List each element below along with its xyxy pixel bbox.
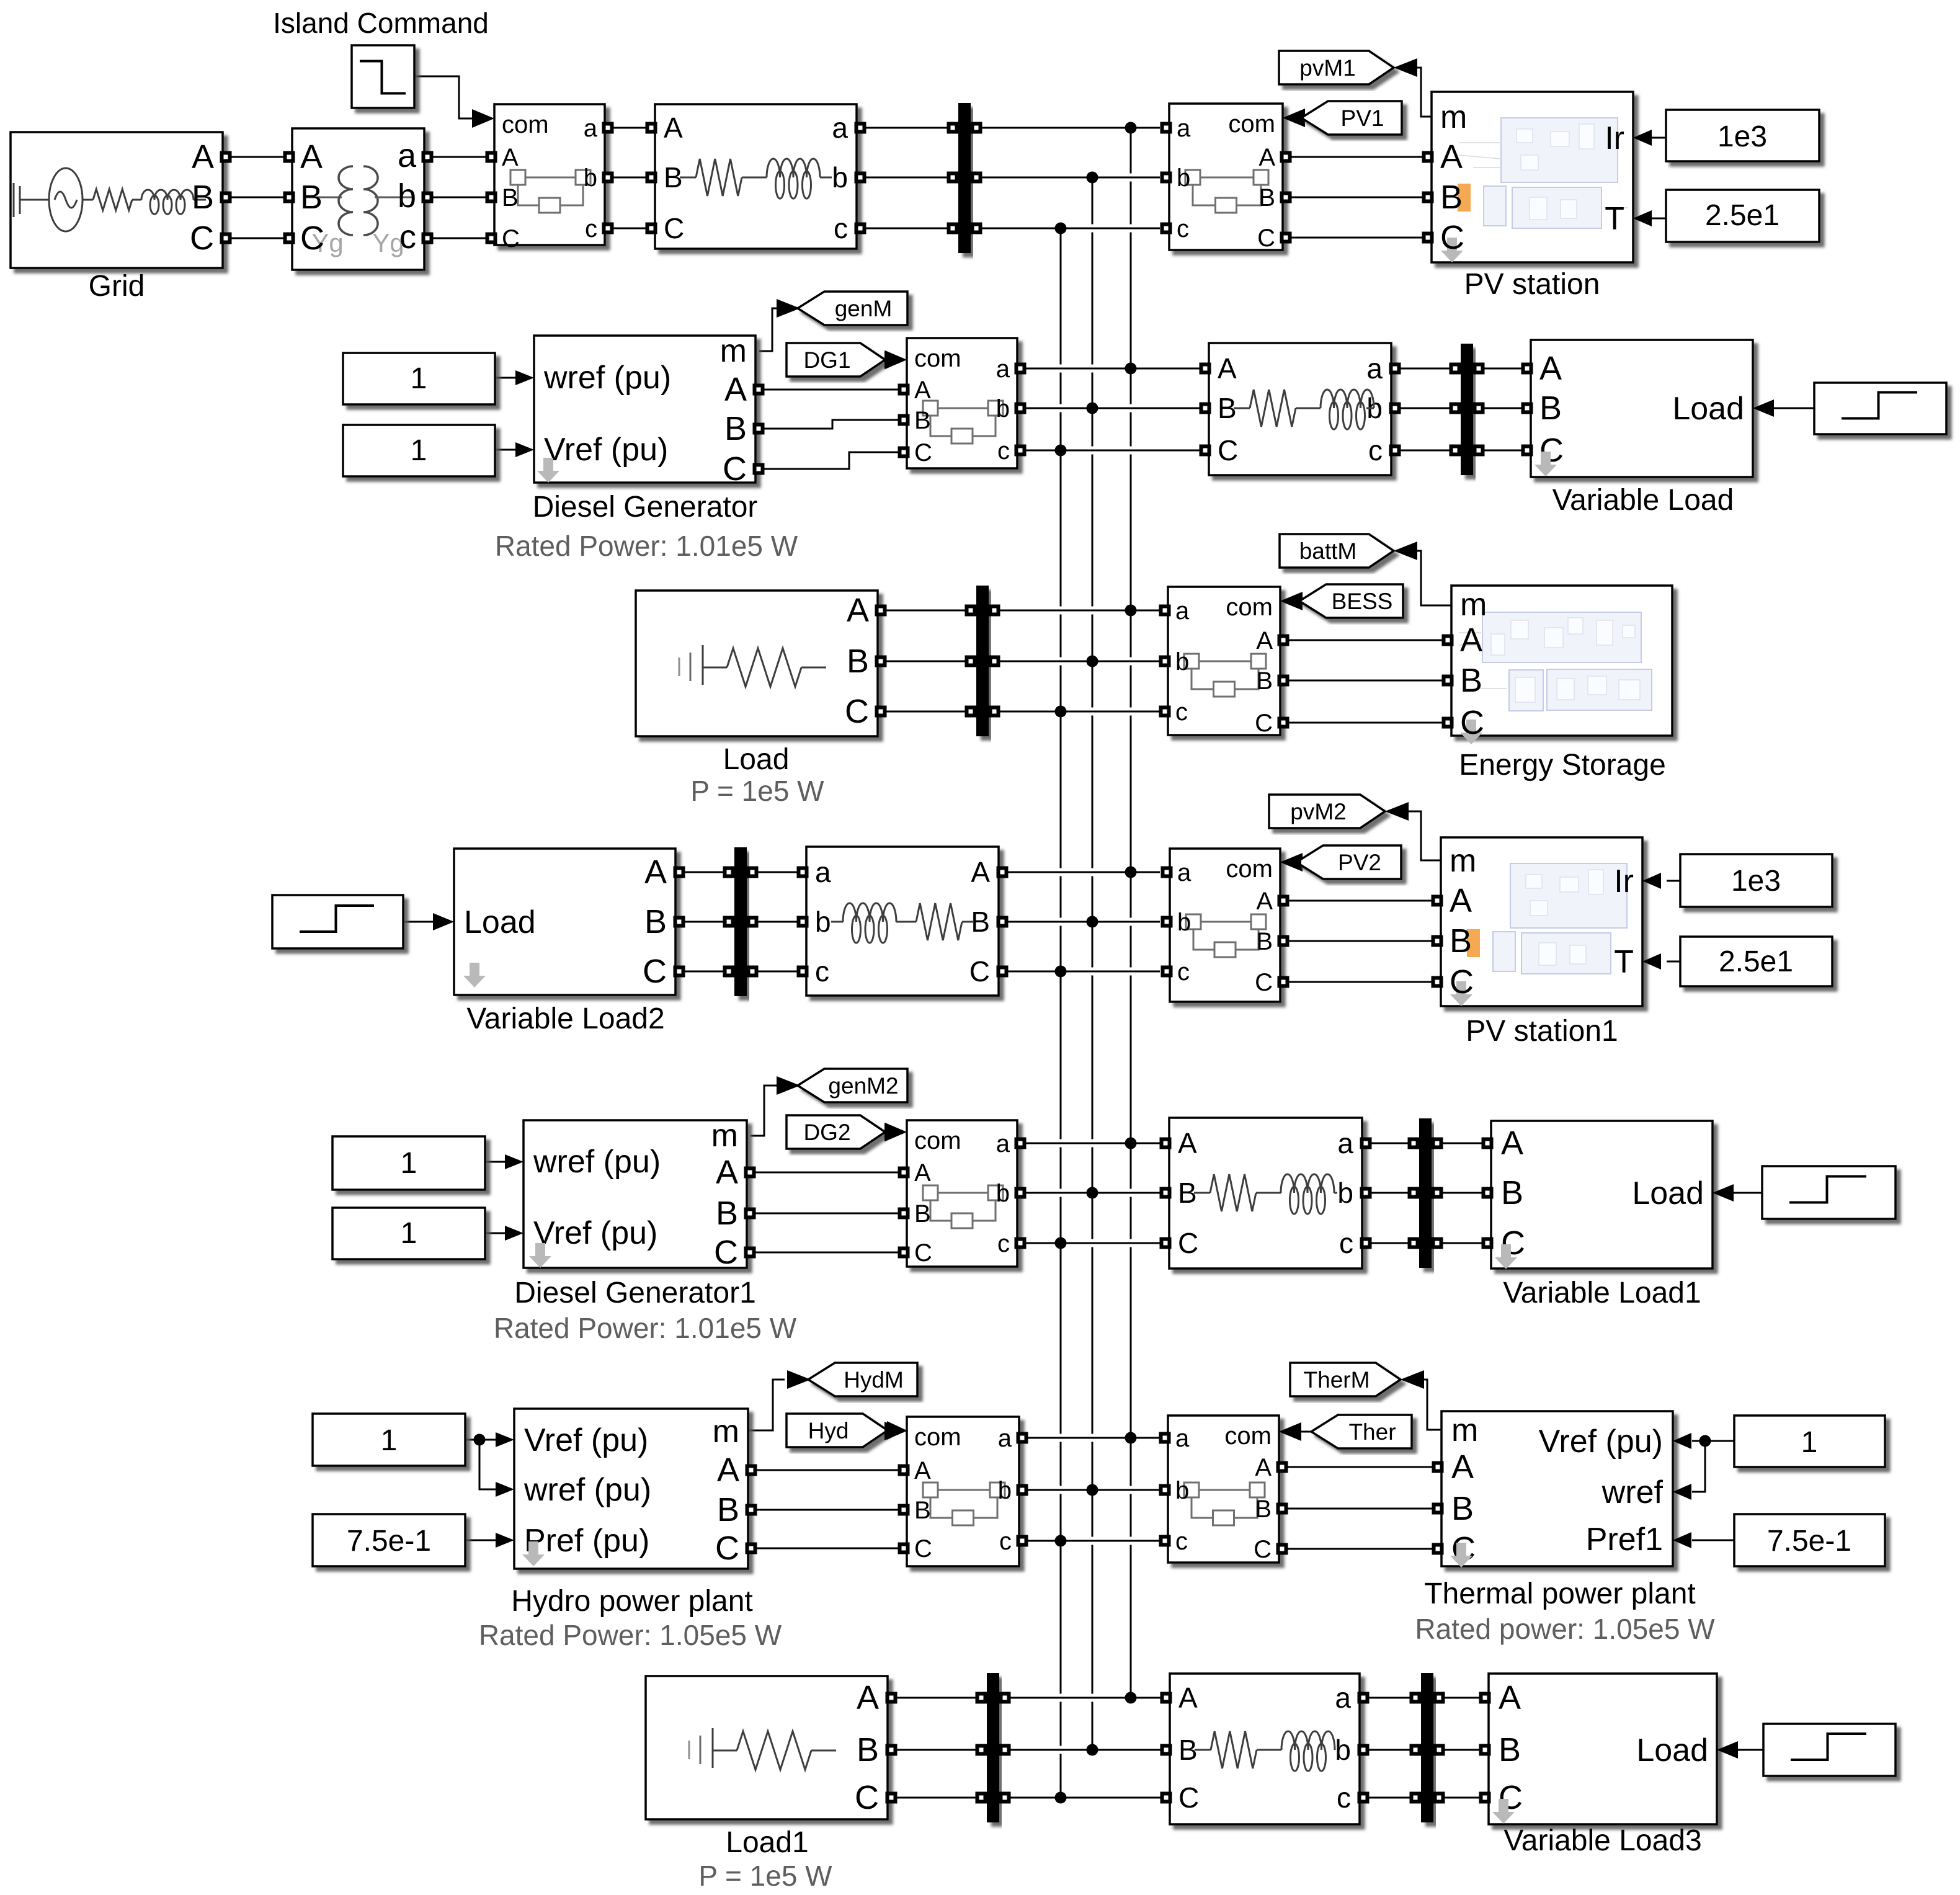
- svg-text:B: B: [857, 1731, 879, 1768]
- svg-text:A: A: [1256, 627, 1273, 654]
- svg-text:A: A: [1460, 622, 1482, 659]
- junction row1 b / v2: [1087, 172, 1098, 184]
- svg-text:b: b: [996, 1180, 1010, 1207]
- constant 2.5e1 row4: [1680, 937, 1832, 986]
- junction row6 b / v2: [1087, 1484, 1098, 1496]
- svg-text:Load: Load: [723, 743, 790, 776]
- svg-text:A: A: [1258, 144, 1275, 171]
- svg-text:genM: genM: [835, 296, 893, 321]
- block Variable Load3: [1489, 1674, 1717, 1824]
- wire RLC1.a to Bus1: [864, 127, 953, 129]
- junction row5 a / v3: [1125, 1138, 1137, 1149]
- svg-text:B: B: [192, 179, 214, 216]
- svg-text:2.5e1: 2.5e1: [1719, 945, 1793, 978]
- svg-text:PV station1: PV station1: [1466, 1015, 1618, 1048]
- svg-text:B: B: [1256, 667, 1273, 695]
- junction row1 a / v3: [1125, 122, 1137, 134]
- wire constant 2.5e1 to PV station.T: [1650, 218, 1666, 220]
- svg-text:7.5e-1: 7.5e-1: [1767, 1525, 1851, 1558]
- wire Hydro.A to BreakerH.A: [755, 1469, 901, 1471]
- svg-text:Load: Load: [464, 904, 536, 940]
- svg-text:PV2: PV2: [1338, 850, 1381, 875]
- wire constant 2.5e1 row4 to PV station1.T: [1667, 961, 1680, 963]
- svg-text:B: B: [1255, 1496, 1272, 1523]
- wire Bus1 to Breaker2.a: [976, 124, 1160, 132]
- svg-text:C: C: [300, 220, 324, 257]
- svg-text:A: A: [717, 1451, 739, 1489]
- svg-text:wref (pu): wref (pu): [533, 1144, 661, 1180]
- svg-text:A: A: [914, 1159, 931, 1187]
- Hydro badge: [522, 1541, 545, 1566]
- svg-text:wref (pu): wref (pu): [543, 360, 671, 396]
- svg-text:c: c: [815, 955, 829, 988]
- wire step4 to Variable Load3.Load: [1738, 1749, 1763, 1751]
- svg-text:Load: Load: [1672, 391, 1744, 427]
- svg-text:Variable Load3: Variable Load3: [1503, 1824, 1701, 1857]
- svg-text:c: c: [834, 212, 848, 244]
- junction row2 c / v1: [1055, 445, 1067, 457]
- wire Transformer.b to Breaker1.B: [430, 197, 489, 198]
- wire BreakerH.a to Breaker7.a: [1020, 1434, 1162, 1442]
- svg-text:B: B: [644, 903, 667, 940]
- svg-text:Thermal power plant: Thermal power plant: [1424, 1577, 1696, 1610]
- junction row7 b / v2: [1087, 1744, 1098, 1756]
- wire Breaker3.b to RLC2.B: [1020, 404, 1202, 412]
- wire TherM tag to Thermal.m: [1423, 1380, 1441, 1430]
- svg-text:b: b: [832, 161, 848, 194]
- from tag DG1: [786, 343, 885, 377]
- svg-text:A: A: [1255, 1454, 1272, 1481]
- wire Breaker3.a to RLC2.A: [1020, 365, 1202, 373]
- svg-text:A: A: [1451, 1448, 1474, 1486]
- wire Diesel Generator1.A to Breaker6.A: [754, 1172, 901, 1174]
- from tag Hyd: [786, 1414, 888, 1447]
- svg-text:C: C: [845, 693, 869, 730]
- svg-text:C: C: [715, 1530, 739, 1567]
- junction row7 c / v1: [1055, 1792, 1067, 1804]
- constant 7.5e-1 row6: [313, 1514, 465, 1566]
- wire Breaker4.A to Energy Storage.A: [1287, 640, 1445, 641]
- junction row3 a / v3: [1125, 605, 1137, 617]
- svg-text:DG1: DG1: [803, 347, 850, 373]
- svg-text:Vref (pu): Vref (pu): [524, 1422, 648, 1458]
- wire Breaker7.A to Thermal.A: [1286, 1466, 1435, 1468]
- block Variable Load: [1531, 340, 1753, 477]
- block RLC5 three-phase series branch: [1170, 1674, 1360, 1824]
- bus bar Bus1: [958, 103, 971, 253]
- junction constant1/wref branch: [474, 1434, 486, 1446]
- svg-text:com: com: [1228, 110, 1275, 138]
- breaker Breaker7 (thermal breaker): [1168, 1416, 1279, 1563]
- svg-text:7.5e-1: 7.5e-1: [347, 1525, 431, 1558]
- svg-text:HydM: HydM: [844, 1367, 904, 1393]
- wire constant1 row6 to Hydro.Vref and wref: [465, 1439, 496, 1441]
- svg-text:B: B: [847, 643, 869, 680]
- wire step to Variable Load.Load: [1774, 408, 1814, 409]
- wire Breaker2.A to PV station.A: [1290, 156, 1425, 158]
- wire Breaker3.c to RLC2.C: [1020, 447, 1202, 455]
- junction row5 b / v2: [1087, 1187, 1098, 1199]
- goto tag TherM: [1290, 1363, 1401, 1396]
- svg-text:PV station: PV station: [1464, 268, 1600, 301]
- svg-text:a: a: [1175, 1425, 1190, 1452]
- step source Island Command: [352, 45, 414, 108]
- wire Bus5 to Variable Load1.A: [1437, 1143, 1485, 1144]
- svg-text:b: b: [1177, 164, 1190, 192]
- wire Breaker2.C to PV station.C: [1290, 237, 1425, 239]
- svg-text:c: c: [997, 437, 1010, 465]
- constant 7.5e-1 thermal: [1734, 1514, 1885, 1566]
- svg-text:B: B: [502, 184, 519, 212]
- svg-text:c: c: [1175, 1528, 1188, 1555]
- svg-text:1: 1: [401, 1147, 417, 1180]
- svg-text:B: B: [1499, 1731, 1521, 1768]
- svg-text:m: m: [1450, 843, 1476, 879]
- svg-text:1: 1: [381, 1424, 398, 1457]
- svg-text:Energy Storage: Energy Storage: [1459, 749, 1666, 782]
- wire Breaker2.B to PV station.B: [1290, 197, 1425, 198]
- svg-text:Ther: Ther: [1348, 1419, 1396, 1445]
- wire Bus3 to Breaker4.a: [994, 607, 1160, 615]
- wire battM tag to Energy Storage.m: [1416, 551, 1451, 605]
- svg-text:c: c: [585, 215, 597, 243]
- svg-text:B: B: [1501, 1174, 1523, 1211]
- wire constant 1e3 to PV station.Ir: [1650, 137, 1666, 139]
- wire constant1b to Diesel Generator.Vref: [495, 449, 517, 451]
- svg-text:C: C: [1255, 710, 1273, 737]
- wire constant 7.5e-1 thermal to Thermal.Pref1: [1692, 1540, 1734, 1541]
- svg-text:b: b: [1177, 909, 1191, 936]
- svg-text:Diesel Generator1: Diesel Generator1: [514, 1277, 756, 1309]
- svg-text:c: c: [1339, 1227, 1353, 1259]
- svg-text:a: a: [1177, 115, 1191, 142]
- wire pvM1 tag to PV station.m: [1416, 68, 1432, 117]
- wire Transformer.c to Breaker1.C: [430, 238, 489, 239]
- wire constant1 row5 to Diesel Generator1.wref: [485, 1161, 506, 1163]
- block PV station: [1432, 92, 1633, 262]
- svg-text:C: C: [914, 439, 932, 466]
- svg-text:B: B: [1440, 179, 1463, 216]
- wire Diesel Generator.B to Breaker3.B: [762, 420, 901, 429]
- svg-text:A: A: [1440, 138, 1463, 176]
- breaker Breaker2 (PV station breaker): [1169, 104, 1283, 250]
- wire Bus6 to RLC5.A: [1005, 1694, 1162, 1702]
- svg-text:pvM2: pvM2: [1290, 799, 1346, 824]
- from tag PV1: [1301, 101, 1402, 135]
- svg-text:C: C: [1178, 1227, 1198, 1259]
- PV station content preview: [1484, 118, 1618, 228]
- svg-text:com: com: [914, 1127, 961, 1154]
- breaker BreakerH (hydro breaker): [907, 1417, 1019, 1566]
- wire constant 1e3 row4 to PV station1.Ir: [1667, 880, 1680, 882]
- block Transformer Yg-Yg: [292, 128, 424, 270]
- svg-text:2.5e1: 2.5e1: [1705, 199, 1780, 232]
- svg-text:c: c: [1368, 434, 1383, 466]
- svg-text:1: 1: [1801, 1426, 1818, 1459]
- svg-text:TherM: TherM: [1304, 1367, 1370, 1393]
- svg-text:Variable Load: Variable Load: [1552, 484, 1734, 517]
- svg-text:Rated power: 1.05e5 W: Rated power: 1.05e5 W: [1415, 1613, 1715, 1645]
- svg-text:Load: Load: [1636, 1732, 1708, 1768]
- svg-text:A: A: [664, 112, 683, 144]
- wire RLC1.b to Bus1: [864, 177, 953, 179]
- block Thermal power plant: [1441, 1411, 1673, 1566]
- svg-text:b: b: [1335, 1734, 1351, 1766]
- breaker Breaker4 (BESS breaker): [1168, 587, 1280, 735]
- Grid ground symbol: [14, 183, 48, 217]
- from tag DG2: [786, 1115, 885, 1149]
- Diesel Generator badge: [537, 458, 559, 483]
- svg-text:wref (pu): wref (pu): [523, 1472, 651, 1508]
- svg-text:Pref (pu): Pref (pu): [524, 1523, 649, 1559]
- Grid AC source: [49, 168, 82, 231]
- svg-text:B: B: [724, 410, 747, 447]
- PV station badge: [1441, 238, 1463, 262]
- wire Breaker1.c to RLC1.C: [608, 228, 648, 230]
- svg-text:T: T: [1605, 201, 1624, 237]
- Variable Load3 badge: [1492, 1799, 1515, 1824]
- svg-text:com: com: [1224, 1422, 1272, 1450]
- junction row4 a / v3: [1125, 867, 1137, 878]
- svg-text:Load: Load: [1632, 1175, 1704, 1211]
- svg-text:a: a: [398, 137, 417, 174]
- svg-text:C: C: [502, 225, 520, 252]
- svg-text:com: com: [914, 1424, 961, 1451]
- PV station1 content preview: [1493, 863, 1627, 974]
- svg-text:C: C: [643, 953, 667, 990]
- wire Bus7 to Variable Load3.A: [1439, 1697, 1482, 1699]
- junction row6 a / v3: [1125, 1432, 1137, 1444]
- svg-text:a: a: [996, 355, 1010, 383]
- wire RLC5.a to Bus7: [1367, 1697, 1415, 1699]
- svg-text:C: C: [1218, 434, 1238, 466]
- bus bar Bus5: [1419, 1118, 1432, 1268]
- wire constant1b row5 to Diesel Generator1.Vref: [485, 1233, 506, 1234]
- block Energy Storage: [1451, 586, 1672, 736]
- Variable Load2 badge: [463, 963, 486, 988]
- wire Grid.C to Transformer.C: [228, 238, 287, 239]
- svg-text:Rated Power: 1.05e5 W: Rated Power: 1.05e5 W: [479, 1619, 782, 1651]
- svg-text:A: A: [1256, 888, 1273, 915]
- svg-text:Diesel Generator: Diesel Generator: [533, 491, 758, 524]
- svg-text:a: a: [1335, 1682, 1351, 1714]
- wire constant 7.5e-1 to Hydro.Pref: [465, 1540, 496, 1541]
- svg-text:A: A: [300, 138, 323, 176]
- svg-text:A: A: [1450, 882, 1472, 919]
- svg-text:C: C: [664, 212, 684, 244]
- junction row5 c / v1: [1055, 1237, 1067, 1249]
- svg-text:A: A: [502, 144, 519, 171]
- svg-text:B: B: [717, 1491, 739, 1528]
- from tag PV2: [1296, 845, 1401, 879]
- wire Breaker5.A to PV station1.A: [1283, 900, 1433, 902]
- step source row2: [1814, 383, 1946, 434]
- breaker Breaker5 (PV station1 breaker): [1170, 849, 1280, 1002]
- svg-text:P = 1e5 W: P = 1e5 W: [690, 775, 824, 807]
- wire vertical bus net phase A (v3): [1130, 128, 1132, 1698]
- wire Bus1 to Breaker2.b: [976, 174, 1160, 182]
- Variable Load badge: [1535, 452, 1557, 476]
- constant 2.5e1: [1666, 190, 1819, 242]
- junction row3 c / v1: [1055, 706, 1067, 718]
- svg-text:Hydro power plant: Hydro power plant: [511, 1585, 753, 1618]
- svg-text:b: b: [998, 1477, 1012, 1504]
- Load battery-resistor icon: [679, 645, 727, 685]
- svg-text:A: A: [971, 856, 990, 888]
- svg-text:c: c: [1337, 1781, 1351, 1814]
- svg-text:a: a: [584, 115, 598, 142]
- wire Transformer.a to Breaker1.A: [430, 156, 489, 158]
- svg-text:c: c: [1177, 215, 1189, 243]
- svg-text:A: A: [1218, 352, 1237, 385]
- wire step3 to Variable Load1.Load: [1734, 1192, 1762, 1194]
- wire Breaker6.a to RLC4.A: [1020, 1139, 1162, 1148]
- block Diesel Generator: [534, 336, 755, 483]
- svg-text:a: a: [832, 112, 848, 144]
- Transformer windings: [303, 197, 342, 198]
- step source row4: [272, 895, 403, 948]
- goto tag genM2: [798, 1069, 907, 1102]
- goto tag battM: [1280, 534, 1394, 568]
- svg-text:B: B: [1539, 390, 1562, 427]
- constant 1 row5 (wref): [332, 1136, 485, 1190]
- Grid series inductor: [132, 199, 141, 201]
- svg-text:PV1: PV1: [1341, 105, 1384, 131]
- goto tag HydM: [808, 1363, 917, 1396]
- bus bar Bus2: [1461, 344, 1473, 475]
- svg-text:1: 1: [411, 434, 427, 467]
- goto tag pvM1: [1279, 51, 1394, 84]
- wire Island Command step to Breaker1.com: [414, 76, 473, 118]
- junction thermal vref/wref branch: [1699, 1435, 1711, 1447]
- svg-text:c: c: [1175, 698, 1188, 726]
- constant 1 (wref): [343, 353, 495, 404]
- svg-text:b: b: [584, 164, 597, 192]
- svg-text:A: A: [1178, 1127, 1197, 1159]
- wire pvM2 tag to PV station1.m: [1409, 811, 1441, 860]
- svg-text:Vref (pu): Vref (pu): [533, 1215, 657, 1251]
- constant 1 row6: [313, 1414, 465, 1466]
- wire Diesel Generator1.m to genM2 tag: [751, 1086, 777, 1136]
- wire constant1 to Diesel Generator.wref: [495, 377, 517, 379]
- svg-text:a: a: [815, 856, 831, 888]
- svg-text:1: 1: [411, 362, 427, 395]
- wire Diesel Generator.C to Breaker3.C: [762, 452, 901, 469]
- wire Breaker1.a to RLC1.A: [608, 127, 648, 129]
- svg-text:C: C: [1440, 219, 1464, 256]
- breaker Breaker1 (grid breaker): [494, 104, 605, 245]
- svg-text:C: C: [190, 220, 214, 257]
- constant 1 (Vref): [343, 425, 495, 476]
- svg-text:Vref (pu): Vref (pu): [1539, 1424, 1663, 1460]
- svg-text:C: C: [1460, 704, 1484, 741]
- wire Grid.B to Transformer.B: [228, 197, 287, 198]
- svg-text:a: a: [1337, 1127, 1353, 1159]
- svg-text:c: c: [997, 1230, 1010, 1257]
- wire RLC1.c to Bus1: [864, 228, 953, 230]
- block Variable Load1: [1491, 1121, 1713, 1269]
- block PV station1: [1441, 837, 1642, 1006]
- svg-text:1: 1: [401, 1217, 417, 1250]
- svg-text:DG2: DG2: [803, 1120, 850, 1145]
- svg-text:b: b: [996, 395, 1010, 422]
- svg-text:B: B: [300, 179, 323, 216]
- wire Breaker1.b to RLC1.B: [608, 177, 648, 179]
- block RLC2 three-phase series branch: [1209, 343, 1391, 475]
- wire Bus2 to Variable Load.A: [1479, 368, 1525, 370]
- svg-text:1e3: 1e3: [1731, 865, 1781, 898]
- wire Load.A to Bus3: [884, 610, 971, 612]
- svg-text:battM: battM: [1299, 538, 1357, 564]
- svg-text:C: C: [914, 1535, 932, 1563]
- svg-text:B: B: [1451, 1490, 1474, 1527]
- svg-text:A: A: [847, 592, 869, 629]
- svg-text:C: C: [914, 1239, 932, 1267]
- wire RLC3.A to Breaker5.a: [1007, 868, 1160, 876]
- svg-text:m: m: [713, 1414, 739, 1450]
- svg-text:B: B: [914, 407, 931, 434]
- svg-text:1e3: 1e3: [1717, 120, 1767, 153]
- svg-text:a: a: [1177, 859, 1192, 886]
- junction row6 c / v1: [1055, 1535, 1067, 1547]
- svg-text:m: m: [720, 333, 747, 369]
- svg-text:P = 1e5 W: P = 1e5 W: [698, 1860, 832, 1892]
- wire vertical bus net phase C (v1): [1060, 228, 1062, 1798]
- Energy Storage badge: [1460, 720, 1482, 744]
- bus bar Bus3: [976, 586, 989, 736]
- svg-text:b: b: [815, 906, 831, 938]
- svg-text:Ir: Ir: [1605, 120, 1624, 156]
- svg-text:BESS: BESS: [1332, 589, 1393, 614]
- Energy Storage content preview: [1482, 612, 1652, 711]
- wire Bus1 to Breaker2.c: [976, 225, 1160, 233]
- svg-text:C: C: [714, 1234, 738, 1271]
- block Hydro power plant: [514, 1409, 748, 1569]
- svg-text:Grid: Grid: [89, 270, 145, 303]
- svg-text:Load1: Load1: [726, 1826, 808, 1859]
- svg-text:A: A: [914, 377, 931, 404]
- svg-text:B: B: [1450, 922, 1472, 960]
- svg-text:A: A: [914, 1457, 931, 1484]
- junction row2 a / v3: [1125, 363, 1137, 375]
- svg-text:com: com: [1226, 855, 1273, 883]
- svg-text:b: b: [1337, 1177, 1353, 1209]
- Load1 battery-resistor icon: [689, 1728, 737, 1768]
- svg-text:A: A: [1178, 1682, 1198, 1714]
- svg-text:b: b: [398, 177, 416, 215]
- junction row4 c / v1: [1055, 966, 1067, 978]
- bus bar Bus7: [1421, 1673, 1433, 1822]
- svg-text:A: A: [1539, 350, 1562, 387]
- svg-text:m: m: [1440, 99, 1467, 135]
- svg-text:C: C: [1255, 969, 1273, 996]
- svg-text:A: A: [724, 371, 747, 408]
- goto tag pvM2: [1269, 795, 1385, 828]
- Diesel Generator1 badge: [529, 1243, 551, 1268]
- junction row4 b / v2: [1087, 916, 1098, 928]
- svg-text:C: C: [1254, 1536, 1272, 1563]
- svg-text:b: b: [1175, 1477, 1189, 1504]
- wire RLC4.a to Bus5: [1370, 1143, 1414, 1144]
- Grid series resistor: [82, 199, 93, 201]
- from tag Ther: [1311, 1415, 1412, 1448]
- constant 1e3 row4: [1680, 854, 1832, 907]
- svg-text:com: com: [1226, 594, 1273, 621]
- wire Hydro.m to HydM tag: [748, 1380, 785, 1430]
- block Grid (three-phase source): [11, 132, 223, 268]
- svg-text:Pref1: Pref1: [1586, 1522, 1663, 1558]
- svg-text:Ir: Ir: [1614, 863, 1634, 899]
